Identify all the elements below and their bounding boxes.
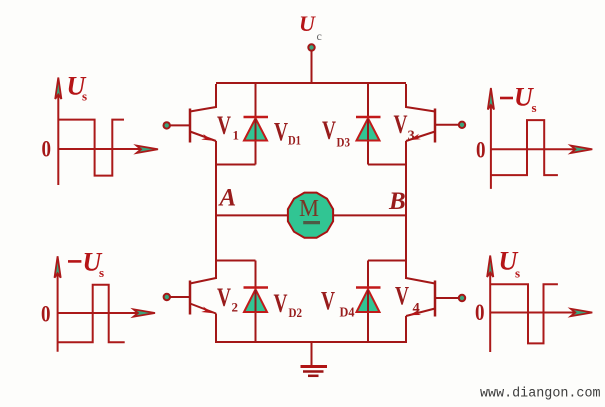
svg-text:V: V <box>217 283 231 312</box>
svg-text:V: V <box>394 110 408 139</box>
svg-text:s: s <box>532 100 537 115</box>
svg-text:2: 2 <box>232 300 239 315</box>
svg-text:D1: D1 <box>288 133 301 148</box>
svg-text:D4: D4 <box>340 306 355 321</box>
svg-text:s: s <box>99 265 104 280</box>
svg-text:D3: D3 <box>337 135 351 150</box>
svg-text:1: 1 <box>233 128 240 143</box>
svg-text:0: 0 <box>475 300 485 325</box>
svg-text:V: V <box>217 111 231 140</box>
svg-text:V: V <box>274 289 288 318</box>
svg-text:4: 4 <box>413 301 420 317</box>
svg-text:V: V <box>321 287 335 316</box>
svg-text:s: s <box>82 89 87 104</box>
svg-text:c: c <box>317 29 322 43</box>
svg-text:0: 0 <box>476 138 486 163</box>
svg-text:www.diangon.com: www.diangon.com <box>480 387 601 402</box>
svg-text:V: V <box>395 282 409 311</box>
svg-text:B: B <box>388 188 406 215</box>
svg-text:D2: D2 <box>289 305 303 320</box>
svg-text:0: 0 <box>41 302 51 327</box>
svg-text:s: s <box>515 265 520 280</box>
svg-text:V: V <box>322 116 336 145</box>
svg-text:U: U <box>299 11 316 36</box>
svg-text:M: M <box>299 196 319 222</box>
svg-text:0: 0 <box>42 137 52 162</box>
svg-text:V: V <box>274 118 288 147</box>
svg-text:3: 3 <box>408 128 415 144</box>
svg-text:A: A <box>218 184 237 211</box>
